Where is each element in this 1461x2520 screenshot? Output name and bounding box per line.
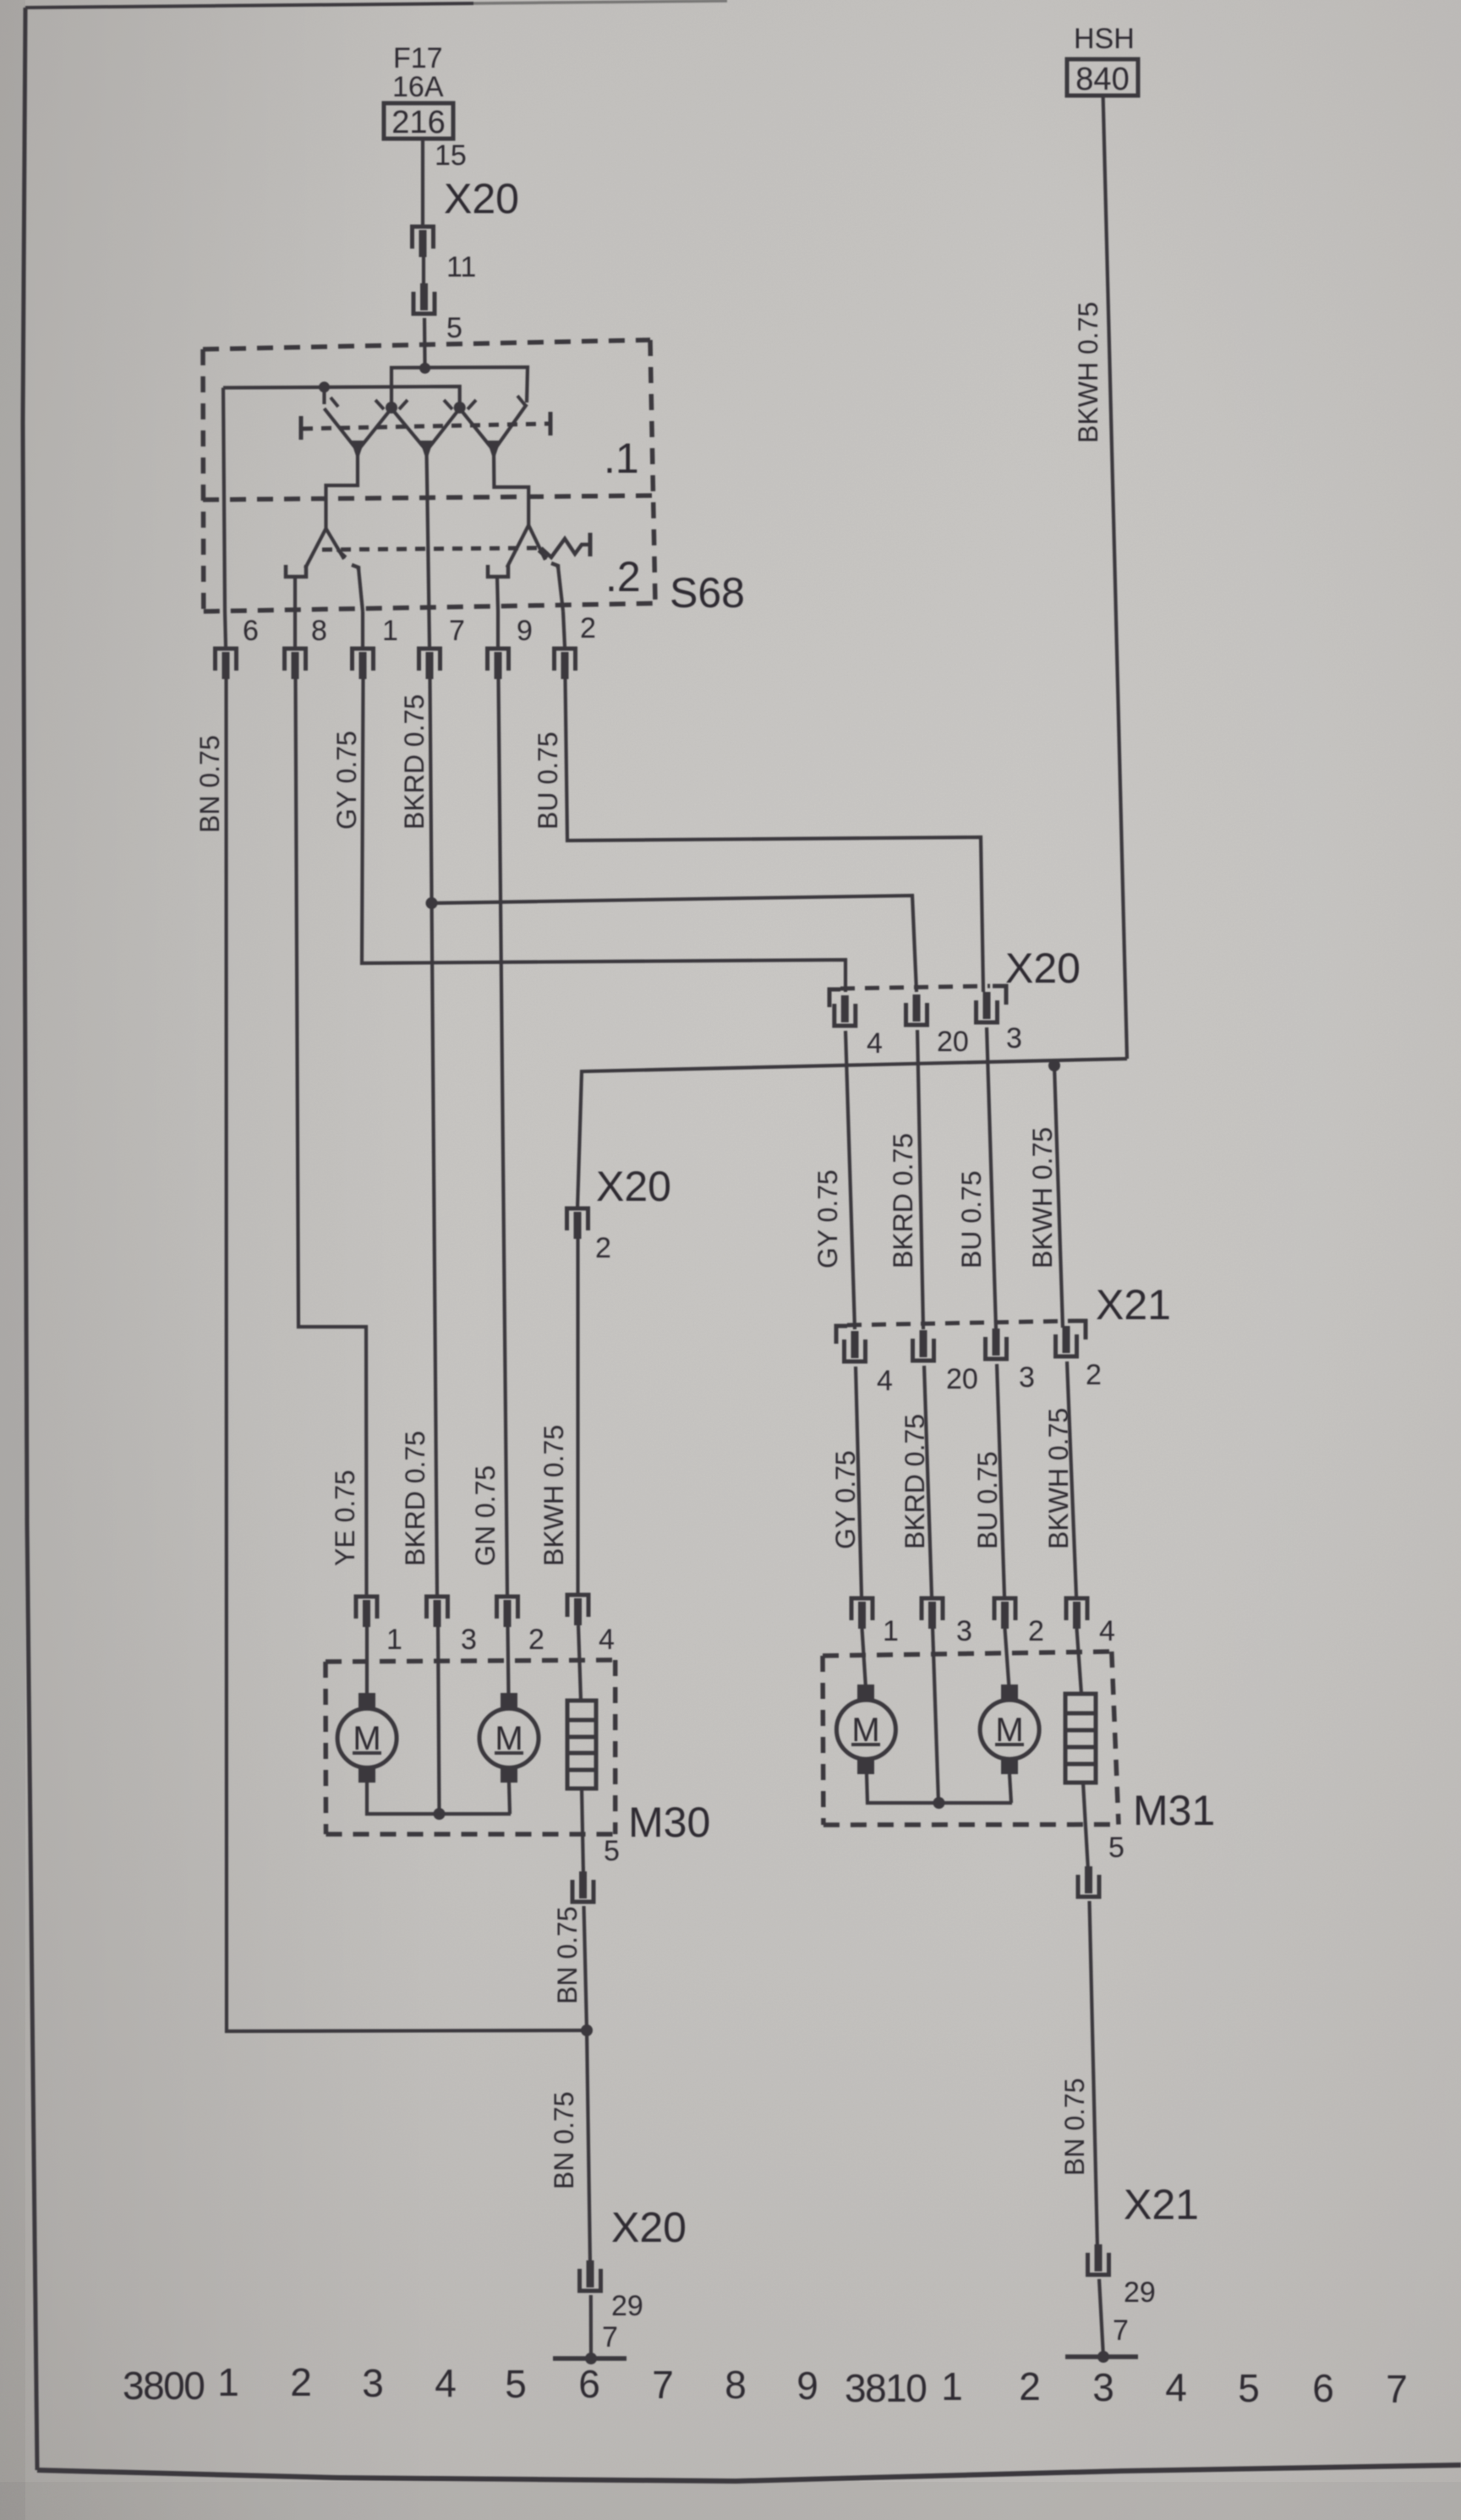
wire BN 0.75 from M31 pin 5 to X21 pin 29 xyxy=(1090,1901,1098,2249)
wire YE 0.75 from S68 pin 8 to M30 pin 1 xyxy=(296,679,367,1595)
svg-text:GY 0.75: GY 0.75 xyxy=(830,1450,861,1549)
M30 washer motor 2 xyxy=(479,1627,539,1783)
connector S68 pin 8 xyxy=(285,611,306,679)
wire BKWH 0.75 X21 pin 2 to M31 pin 4 xyxy=(1067,1361,1076,1597)
svg-text:9: 9 xyxy=(517,615,533,647)
svg-text:BKWH 0.75: BKWH 0.75 xyxy=(539,1425,569,1566)
svg-text:4: 4 xyxy=(867,1027,883,1060)
svg-text:M31: M31 xyxy=(1133,1787,1215,1834)
svg-text:20: 20 xyxy=(946,1363,978,1395)
svg-text:3800: 3800 xyxy=(123,2364,204,2408)
connector X20 pin 29 xyxy=(580,2260,601,2291)
M31 heater resistor xyxy=(1065,1629,1096,1783)
svg-text:3: 3 xyxy=(362,2361,384,2405)
svg-text:4: 4 xyxy=(1165,2365,1187,2409)
S68 row .2 coupling dashed bar with detent xyxy=(322,533,590,557)
M31 internal ground bus xyxy=(867,1627,1012,1803)
connector X20 pin 11 xyxy=(413,227,434,257)
S68 row .2 changeover contact right xyxy=(488,501,563,611)
svg-text:840: 840 xyxy=(1075,62,1129,97)
wire BKWH 0.75 from HSH 840 down to bus xyxy=(1103,96,1127,1059)
svg-text:S68: S68 xyxy=(670,569,745,616)
svg-text:BKRD 0.75: BKRD 0.75 xyxy=(900,1414,930,1549)
svg-text:5: 5 xyxy=(446,312,462,344)
svg-text:2: 2 xyxy=(528,1624,544,1656)
svg-text:8: 8 xyxy=(725,2363,747,2407)
connector X21 pin 3 xyxy=(986,1328,1007,1359)
svg-text:YE 0.75: YE 0.75 xyxy=(330,1470,360,1566)
wire BN 0.75 from S68 pin 6 down and across to X20 pin 29 xyxy=(227,679,588,2031)
S68 row .1 output jog left xyxy=(326,451,358,501)
svg-text:1: 1 xyxy=(883,1615,899,1647)
connector S68 pin 9 xyxy=(488,611,509,679)
S68 row .1 mechanical coupling dashed bar xyxy=(301,412,550,440)
node junction BKRD branch xyxy=(426,897,438,909)
wire BU 0.75 from S68 pin 2 across to X20 pin 3 xyxy=(566,679,984,992)
svg-text:.1: .1 xyxy=(604,435,639,482)
node junction on lower rail xyxy=(319,381,330,392)
wiper motor unit M31 dashed enclosure xyxy=(823,1652,1119,1825)
connector X21 pin 2 xyxy=(1056,1326,1077,1356)
connector S68 pin 6 xyxy=(216,649,237,679)
connector X21 pin 29 xyxy=(1088,2244,1109,2275)
S68 row .1 output jog right xyxy=(494,451,528,501)
svg-text:11: 11 xyxy=(446,251,476,283)
wire BKRD 0.75 from S68 pin 7 to M30 pin 3 xyxy=(430,679,438,1595)
connector M30 pin 2 xyxy=(497,1597,518,1627)
svg-text:3: 3 xyxy=(1006,1022,1022,1055)
svg-text:BKWH 0.75: BKWH 0.75 xyxy=(1073,302,1103,443)
svg-text:BN 0.75: BN 0.75 xyxy=(549,2091,579,2189)
svg-text:X20: X20 xyxy=(444,175,519,222)
svg-text:2: 2 xyxy=(290,2360,312,2404)
svg-text:29: 29 xyxy=(611,2290,643,2322)
svg-text:5: 5 xyxy=(1108,1832,1124,1864)
svg-text:BU 0.75: BU 0.75 xyxy=(956,1170,987,1268)
svg-text:8: 8 xyxy=(311,615,327,647)
svg-text:4: 4 xyxy=(1099,1615,1115,1647)
svg-text:HSH: HSH xyxy=(1074,23,1135,55)
svg-text:2: 2 xyxy=(595,1232,611,1264)
wire M31 pin 5 lead xyxy=(1083,1783,1088,1871)
svg-text:16A: 16A xyxy=(392,71,444,103)
label track scale 3800 xyxy=(123,2360,818,2408)
label track scale 3810 xyxy=(845,2364,1408,2411)
svg-text:9: 9 xyxy=(796,2364,818,2408)
svg-text:15: 15 xyxy=(435,140,467,172)
connector S68 pin 2 xyxy=(555,611,576,679)
wire GY 0.75 from S68 pin 1 across to X20 pin 4 xyxy=(362,679,845,992)
svg-text:M30: M30 xyxy=(628,1799,710,1846)
connector X20 pin 4 xyxy=(834,995,856,1026)
S68 row .2 changeover contact left xyxy=(286,501,363,611)
svg-text:.2: .2 xyxy=(605,553,641,600)
svg-text:GY 0.75: GY 0.75 xyxy=(813,1170,843,1268)
node junction M31 bus xyxy=(933,1797,945,1809)
svg-text:7: 7 xyxy=(652,2363,674,2407)
svg-text:BKRD 0.75: BKRD 0.75 xyxy=(399,694,430,830)
svg-text:X21: X21 xyxy=(1124,2181,1199,2228)
svg-text:BKWH 0.75: BKWH 0.75 xyxy=(1043,1408,1074,1549)
wire S68 pin 6 lead xyxy=(223,388,226,648)
svg-text:2: 2 xyxy=(1086,1359,1102,1391)
connector X20 pin 3 xyxy=(977,992,998,1022)
svg-text:BN 0.75: BN 0.75 xyxy=(194,735,225,833)
svg-text:216: 216 xyxy=(391,105,445,140)
M31 washer motor 2 xyxy=(980,1629,1039,1774)
svg-text:7: 7 xyxy=(1113,2315,1129,2347)
svg-text:4: 4 xyxy=(599,1624,615,1656)
S68 row .1 output middle xyxy=(427,451,428,501)
svg-text:29: 29 xyxy=(1124,2276,1156,2309)
connector X20 pin 2 inline xyxy=(567,1208,588,1239)
svg-text:7: 7 xyxy=(1386,2367,1408,2411)
svg-text:5: 5 xyxy=(604,1835,620,1867)
S68 row .1 feed rail upper xyxy=(391,367,528,407)
svg-text:7: 7 xyxy=(602,2321,618,2353)
S68 row .1 feed rail lower xyxy=(223,386,460,407)
svg-text:7: 7 xyxy=(449,615,465,647)
connector S68 pin 7 xyxy=(419,501,440,679)
connector M31 pin 3 xyxy=(922,1598,943,1629)
svg-text:2: 2 xyxy=(1028,1615,1044,1647)
wire M30 pin 5 lead xyxy=(582,1789,583,1876)
svg-text:5: 5 xyxy=(505,2362,527,2406)
fuse F17 16A box 216 xyxy=(384,103,453,139)
svg-text:6: 6 xyxy=(578,2362,600,2406)
wire BKWH branch down to X21 pin 2 xyxy=(1054,1066,1063,1328)
connector X21 pin 4 xyxy=(845,1331,866,1361)
svg-text:1: 1 xyxy=(941,2364,963,2408)
svg-text:1: 1 xyxy=(217,2360,239,2404)
wire BKWH bus across to X20 pin 2 xyxy=(577,1059,1127,1208)
svg-text:3810: 3810 xyxy=(845,2366,926,2410)
switch S68 dashed enclosure xyxy=(203,340,655,611)
connector X20 row dashed housing xyxy=(829,986,1006,1007)
svg-text:BU 0.75: BU 0.75 xyxy=(533,731,563,830)
wire BKRD 0.75 X21 pin 20 to M31 pin 3 xyxy=(924,1366,932,1597)
M30 internal ground bus xyxy=(367,1625,511,1814)
wire BN 0.75 from M30 pin 5 to X20 pin 29 xyxy=(584,1906,591,2265)
svg-text:GN 0.75: GN 0.75 xyxy=(470,1465,501,1566)
wire BKRD 0.75 X20 pin 20 to X21 pin 20 xyxy=(917,1030,923,1329)
connector M31 pin 2 xyxy=(994,1598,1015,1629)
node junction BKWH branch to X21 xyxy=(1048,1060,1060,1071)
svg-text:3: 3 xyxy=(1019,1361,1035,1394)
connector S68 pin 1 xyxy=(353,611,374,679)
svg-text:6: 6 xyxy=(1312,2366,1334,2410)
connector M30 pin 3 xyxy=(427,1597,448,1627)
svg-text:4: 4 xyxy=(877,1365,893,1397)
label fuse F17 16A xyxy=(391,42,445,140)
node junction BN lines xyxy=(581,2024,593,2036)
connector M31 pin 1 xyxy=(851,1598,873,1629)
svg-text:1: 1 xyxy=(382,615,398,647)
svg-text:20: 20 xyxy=(937,1026,969,1058)
connector M31 pin 4 xyxy=(1066,1598,1087,1629)
svg-text:6: 6 xyxy=(243,615,259,647)
wire BU 0.75 X21 pin 3 to M31 pin 2 xyxy=(997,1364,1004,1597)
svg-text:GY 0.75: GY 0.75 xyxy=(331,731,362,830)
node junction at S68 feed xyxy=(419,363,430,374)
svg-text:BKRD 0.75: BKRD 0.75 xyxy=(888,1133,918,1268)
connector M31 pin 5 xyxy=(1078,1866,1099,1897)
svg-text:4: 4 xyxy=(435,2361,457,2405)
svg-text:X20: X20 xyxy=(611,2204,687,2251)
svg-text:1: 1 xyxy=(386,1624,402,1656)
wire GY 0.75 X20 pin 4 to X21 pin 4 xyxy=(845,1031,855,1329)
connector X20 pin 5 xyxy=(413,283,435,314)
wire GN 0.75 from S68 pin 9 to M30 pin 2 xyxy=(499,679,508,1595)
wire X20 pin 11 to X20 pin 5 xyxy=(422,257,425,286)
connector X20 pin 20 xyxy=(906,994,927,1025)
svg-text:3: 3 xyxy=(461,1624,477,1656)
HSH feed box 840 xyxy=(1067,59,1138,96)
wiper motor unit M30 dashed enclosure xyxy=(326,1660,616,1834)
svg-text:BN 0.75: BN 0.75 xyxy=(1059,2078,1090,2176)
svg-text:X21: X21 xyxy=(1096,1281,1171,1328)
svg-text:F17: F17 xyxy=(393,42,443,74)
svg-text:3: 3 xyxy=(956,1615,972,1647)
svg-text:5: 5 xyxy=(1238,2366,1260,2410)
S68 row .1 wiper zigzag contacts xyxy=(325,396,528,461)
ground point 7 right xyxy=(1065,2279,1138,2363)
svg-text:3: 3 xyxy=(1092,2365,1114,2409)
M30 washer motor 1 xyxy=(337,1627,397,1783)
connector M30 pin 5 xyxy=(572,1871,594,1902)
node junction M30 bus xyxy=(434,1808,446,1820)
svg-text:2: 2 xyxy=(1019,2364,1041,2408)
svg-text:2: 2 xyxy=(580,612,596,644)
wire X20 pin 5 to S68 node xyxy=(423,318,427,370)
connector X21 pin 20 xyxy=(913,1330,934,1361)
svg-text:X20: X20 xyxy=(1005,945,1081,992)
wire fuse 216 pin 15 to connector X20 pin 11 xyxy=(421,139,424,225)
svg-text:BKWH 0.75: BKWH 0.75 xyxy=(1027,1127,1058,1268)
M31 washer motor 1 xyxy=(836,1629,895,1774)
connector M30 pin 4 xyxy=(567,1239,588,1625)
wire GY 0.75 X21 pin 4 to M31 pin 1 xyxy=(856,1367,862,1597)
svg-text:BKRD 0.75: BKRD 0.75 xyxy=(400,1431,430,1566)
wire BU 0.75 X20 pin 3 to X21 pin 3 xyxy=(987,1027,996,1329)
wire BKRD 0.75 branch across to X20 pin 20 xyxy=(432,896,917,992)
M30 heater resistor xyxy=(567,1625,596,1789)
ground point 7 left xyxy=(553,2295,627,2364)
connector M30 pin 1 xyxy=(356,1597,377,1627)
connector X21 row dashed housing xyxy=(836,1321,1086,1344)
svg-text:BU 0.75: BU 0.75 xyxy=(972,1451,1003,1549)
svg-text:X20: X20 xyxy=(596,1163,671,1210)
svg-text:BN 0.75: BN 0.75 xyxy=(552,1906,583,2004)
